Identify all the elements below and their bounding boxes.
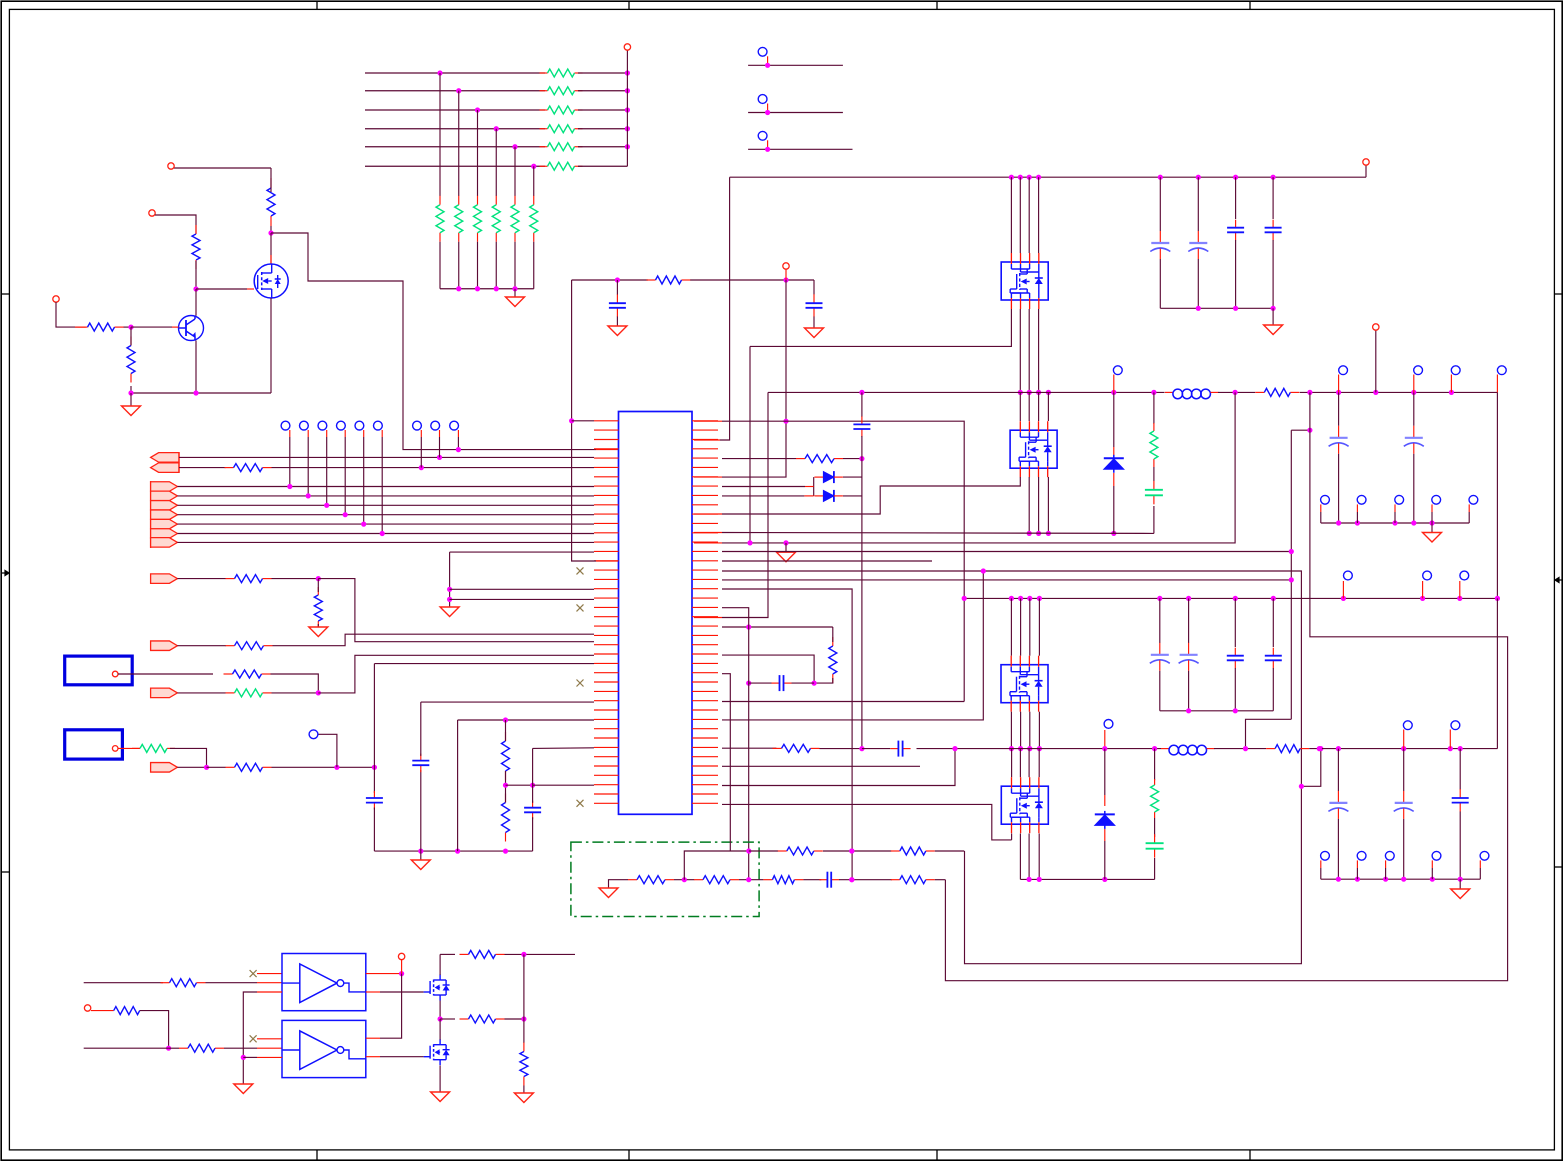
wire vertical pullup bus xyxy=(626,50,628,166)
resistor R17 xyxy=(647,279,656,281)
wire C6 col upper xyxy=(1338,392,1340,425)
junction bottom node xyxy=(128,390,133,395)
wire A4 tail xyxy=(273,634,595,646)
ic U1 controller xyxy=(619,412,693,815)
wire C11 bot xyxy=(616,317,618,327)
wire bottom bus of RG xyxy=(440,288,534,290)
junctions vout2 rail xyxy=(1317,746,1322,751)
transistor U5 MOSFET pair phase2 low xyxy=(1001,786,1048,824)
ic U1 left pin xyxy=(594,700,619,702)
wire RN4 to vertical bus xyxy=(578,128,627,130)
wire bus line 6 xyxy=(365,165,545,167)
wire VIN1 pin to drain resistor xyxy=(174,167,271,169)
test point stub xyxy=(1413,375,1415,393)
connector bracket B xyxy=(150,481,152,548)
ic U1 left pin xyxy=(594,560,619,562)
wire P8 stub xyxy=(91,1010,114,1012)
test point xyxy=(1321,495,1330,504)
wire tp stub xyxy=(1385,868,1387,879)
wire fb vertical xyxy=(1290,430,1292,719)
resistor RN4 xyxy=(540,128,548,130)
resistor R28 xyxy=(161,982,170,984)
transistor U2 MOSFET pair phase1 high xyxy=(1001,262,1048,300)
wire fb to vout2 xyxy=(1246,719,1292,748)
junctions VIN2 bus left xyxy=(1037,596,1042,601)
ic U1 right pin xyxy=(692,662,718,664)
junctions tp bus2 xyxy=(1383,877,1388,882)
test point TPC3 stub xyxy=(457,430,459,437)
test point TPC1 xyxy=(413,421,422,430)
wire A2 line tail xyxy=(272,467,595,469)
ic U1 right pin xyxy=(692,429,718,431)
wire B1 line xyxy=(177,486,594,488)
resistor RG5 xyxy=(514,196,516,205)
resistor RN6 xyxy=(540,165,548,167)
ground G-C11 xyxy=(608,326,627,336)
wire tap 1 down xyxy=(439,73,441,196)
wire inv cross link xyxy=(380,974,402,1039)
wire tp stub xyxy=(1431,868,1433,879)
wire gate node to Q3 gate xyxy=(196,288,247,290)
junction row579 fb xyxy=(1289,577,1294,582)
ic U1 left pin xyxy=(594,737,619,739)
ground G-R33 xyxy=(514,1093,533,1103)
junctions SW2 node xyxy=(1009,746,1014,751)
wire vref rail xyxy=(572,279,648,281)
resistor R24 xyxy=(763,879,772,881)
resistor R29 xyxy=(113,1010,115,1012)
test point stub xyxy=(1394,504,1396,512)
ground G-Q2 xyxy=(431,1092,450,1102)
junction SW2 col861 xyxy=(859,746,864,751)
wire comp upper mid xyxy=(749,850,778,852)
resistor R34 xyxy=(832,637,834,646)
ic U1 right pin xyxy=(692,578,718,580)
junctions bottom bus RG xyxy=(494,286,499,291)
ic U1 left pin xyxy=(594,420,619,422)
resistor RG1 xyxy=(439,196,441,205)
test point stub xyxy=(1496,375,1498,393)
test point TPC3 xyxy=(450,421,459,430)
resistor R27 xyxy=(891,850,900,852)
wire B4 line xyxy=(177,514,594,516)
junctions top pullup column xyxy=(625,88,630,93)
wire block1 lead 2 top xyxy=(1019,177,1021,253)
wire C22 col upper xyxy=(1459,749,1461,790)
wire col532 to IC row785 xyxy=(533,784,594,786)
connector arrow B2 xyxy=(151,491,178,501)
wire phase1 source bus xyxy=(722,532,1154,535)
junctions VIN2 bus caps xyxy=(1186,596,1191,601)
test point TPB2 xyxy=(300,421,309,430)
ic U1 right pin xyxy=(692,448,718,450)
ic U1 right pin xyxy=(692,802,718,804)
resistor R9 xyxy=(317,587,319,595)
connector arrow B5 xyxy=(151,519,178,529)
test point stub xyxy=(1338,375,1340,393)
diode D4 xyxy=(1095,813,1115,815)
capacitor C3 xyxy=(1235,220,1237,228)
ic U1 right pin xyxy=(692,625,718,627)
connector arrow A3 xyxy=(151,574,178,584)
wire block1 lead1 to gate net xyxy=(750,309,1011,346)
transistor U3 MOSFET pair phase1 low xyxy=(1010,430,1057,468)
wire tp stub xyxy=(1394,512,1396,523)
connector pin P8 xyxy=(84,1005,90,1011)
connector pin P7 xyxy=(783,263,789,269)
ic U1 right pin xyxy=(692,522,718,524)
test point TP5 xyxy=(1104,720,1113,729)
test point TPB3 stub xyxy=(326,430,328,437)
connector arrow B7 xyxy=(151,538,178,548)
ic U1 left pin xyxy=(594,588,619,590)
ic U1 right pin xyxy=(692,793,718,795)
wire cap col p2-1 upper xyxy=(1159,598,1161,643)
junctions vout2 rail xyxy=(1448,746,1453,751)
junction TPB5 xyxy=(361,522,366,527)
test point xyxy=(1321,851,1330,860)
test point TP4 stub xyxy=(1113,375,1115,393)
wire fb arm xyxy=(1291,429,1310,431)
ic U1 right pin xyxy=(692,681,718,683)
test point TPB4 xyxy=(337,421,346,430)
wire R1 top lead xyxy=(270,168,272,192)
wire cap col 3 upper xyxy=(1235,177,1237,219)
junction col851 xyxy=(849,877,854,882)
wire A4 head xyxy=(177,645,226,647)
junctions block2 source bus xyxy=(1027,531,1032,536)
wire tp stub xyxy=(1468,512,1470,523)
connector arrow B6 xyxy=(151,529,178,539)
ic U1 left pin xyxy=(594,429,619,431)
ic U1 left pin xyxy=(594,606,619,608)
wire C21 col lower xyxy=(1403,819,1405,879)
junctions 12V bus taps xyxy=(1018,175,1023,180)
wire 12V pin stub xyxy=(1365,165,1367,177)
wire block1 lead 1 top xyxy=(1010,177,1012,253)
wire A5 to jog xyxy=(318,655,594,693)
wire block1 lead 3 top xyxy=(1028,177,1030,253)
ic U1 left pin xyxy=(594,578,619,580)
wire row673 drop xyxy=(722,674,730,851)
wire cap col 4 lower xyxy=(1272,240,1274,308)
test point TPV0 xyxy=(1344,571,1353,580)
wire TPC1 down xyxy=(420,437,422,468)
test point TPB1 stub xyxy=(289,430,291,437)
junctions top pullup column xyxy=(625,126,630,131)
wire drain to right net xyxy=(271,233,596,450)
test point stub xyxy=(1431,860,1433,868)
junction vref caps xyxy=(615,277,620,282)
test point TPB3 xyxy=(318,421,327,430)
ground G-TR xyxy=(1264,325,1283,335)
test point xyxy=(1395,495,1404,504)
wire R33 to ground xyxy=(523,1086,525,1094)
wire block2 gate from IC xyxy=(722,486,920,514)
ic U1 left pin xyxy=(594,709,619,711)
ic U1 left pin xyxy=(594,728,619,730)
wire RN3 to vertical bus xyxy=(578,109,627,111)
junctions block2 source bus xyxy=(1036,531,1041,536)
wire block1 lead3 to SW1 xyxy=(1028,309,1030,392)
ic U1 left pin xyxy=(594,681,619,683)
test point TPV0 stub xyxy=(1342,581,1344,598)
ic U1 left pin xyxy=(594,569,619,571)
wire cap col p2-2 upper xyxy=(1188,598,1190,643)
junction A5 xyxy=(316,690,321,695)
wire tp bus1 xyxy=(1321,522,1469,524)
connector arrow B1 xyxy=(151,482,178,492)
junction tap line 6 xyxy=(531,164,536,169)
ic U1 left pin xyxy=(594,625,619,627)
junctions top pullup column xyxy=(625,107,630,112)
ground G-LL xyxy=(411,860,430,870)
resistor RG3 xyxy=(477,196,479,205)
ic U1 right pin xyxy=(692,560,718,562)
diode D1 xyxy=(1104,457,1124,459)
junction bottom node xyxy=(193,390,198,395)
wire right column xyxy=(523,954,525,1019)
wire top rail tail xyxy=(505,953,576,955)
resistor R20 xyxy=(1266,748,1275,750)
ic U1 right pin xyxy=(692,672,718,674)
wire mid rail head xyxy=(440,1018,455,1020)
wire col449 vertical xyxy=(449,552,451,607)
wire block2 lead1 top xyxy=(1019,392,1021,421)
wire col457 up xyxy=(457,720,459,851)
ic U1 left pin xyxy=(594,644,619,646)
ground G-inv xyxy=(234,1084,253,1094)
wire comp2 caprow right xyxy=(792,682,815,684)
wire comp ground stub xyxy=(609,880,629,888)
ic U1 left pin xyxy=(594,802,619,804)
connector arrow A6 xyxy=(151,763,178,773)
junction col532 mid xyxy=(530,783,535,788)
junction row719 up xyxy=(981,568,986,573)
wire ground stub LL xyxy=(420,851,422,860)
ic U1 right pin xyxy=(692,634,718,636)
wire RG5 to bottom bus xyxy=(514,242,516,289)
test point TP4 xyxy=(1113,366,1122,375)
resistor R10 xyxy=(226,645,235,647)
junctions 12V bus taps xyxy=(1009,175,1014,180)
wire vout1 sense loop xyxy=(945,392,1507,980)
junctions SW2 node xyxy=(1037,746,1042,751)
junction TPB4 xyxy=(343,512,348,517)
junctions vout2 rail xyxy=(1243,746,1248,751)
wire cap col 1 upper xyxy=(1159,177,1161,231)
wire comp col drop xyxy=(722,608,749,880)
capacitor C19 snubber xyxy=(1154,834,1156,843)
ic U1 right pin xyxy=(692,718,718,720)
junctions caps bottom bus TR xyxy=(1196,306,1201,311)
wire row785 drop xyxy=(722,749,955,786)
connector pin P5 xyxy=(1363,159,1369,165)
test point xyxy=(1339,366,1348,375)
wire RG3 to bottom bus xyxy=(477,242,479,289)
wire bus line 1 xyxy=(365,72,545,74)
junction inv row3 xyxy=(241,1055,246,1060)
wire R2 to gate node xyxy=(195,261,197,289)
junction mid rail xyxy=(438,1016,443,1021)
resistor RN1 xyxy=(540,72,548,74)
wire C12 col xyxy=(813,280,815,295)
wire tap 4 down xyxy=(495,129,497,196)
test point TP2 xyxy=(758,95,767,104)
resistor RG6 xyxy=(533,196,535,205)
junction col505 mid xyxy=(503,783,508,788)
ic U1 left pin xyxy=(594,616,619,618)
test point stub xyxy=(1320,860,1322,868)
junctions vout1 rail xyxy=(1373,390,1378,395)
connector pin J2-1 xyxy=(112,746,118,752)
wire block2 lead2 to PGND bus xyxy=(1028,477,1030,533)
wire comp mid3 xyxy=(803,879,821,881)
wire comp mid2 xyxy=(739,879,763,881)
junction tap line 4 xyxy=(494,126,499,131)
test point stub xyxy=(1450,375,1452,393)
wire cap col 2 lower xyxy=(1197,259,1199,308)
wire inv row3 lead xyxy=(257,991,282,993)
connector pin P3 xyxy=(53,296,59,302)
wire cap col 2 upper xyxy=(1197,177,1199,231)
junction vout2 jog xyxy=(1299,784,1304,789)
ground G-RG xyxy=(506,297,525,307)
junctions SW1 node xyxy=(1018,390,1023,395)
ic U1 left pin xyxy=(594,634,619,636)
resistor R18 xyxy=(796,458,805,460)
diode D2 xyxy=(814,476,823,478)
junction lineA xyxy=(783,540,788,545)
resistor RN3 xyxy=(540,109,548,111)
ic U1 left pin xyxy=(594,756,619,758)
wire TP segment 3 xyxy=(748,148,852,150)
wire A6 mid xyxy=(207,766,226,768)
wire TPB6 down xyxy=(381,437,383,534)
wire cap col p2-2 lower xyxy=(1188,671,1190,711)
ic U1 right pin xyxy=(692,616,718,618)
wire SW1 rail xyxy=(768,391,1165,393)
test point stub xyxy=(1356,860,1358,868)
ic U1 left pin xyxy=(594,457,619,459)
wire block4 lead1 top xyxy=(1011,749,1013,778)
diode D3 xyxy=(814,495,823,497)
wire TP segment 1 xyxy=(748,64,843,66)
wire P9 stub xyxy=(401,960,403,974)
wire block3 lead3 bot xyxy=(1029,712,1031,749)
capacitor C21 polarized xyxy=(1403,791,1405,803)
wire col861 long xyxy=(861,459,863,749)
junctions 12V bus caps xyxy=(1233,175,1238,180)
wire col851 drop xyxy=(722,589,852,880)
wire cap col 4 upper xyxy=(1272,177,1274,219)
ic U1 left pin xyxy=(594,653,619,655)
wire SW1 to lineA xyxy=(722,392,1235,543)
ic U1 left pin xyxy=(594,448,619,450)
junctions tp bus2 xyxy=(1430,877,1435,882)
inductor L1 xyxy=(1165,391,1173,393)
junctions caps bottom bus TR xyxy=(1233,306,1238,311)
wire row561 xyxy=(722,560,932,562)
junctions tp bus1 xyxy=(1392,520,1397,525)
connector arrow A5 xyxy=(151,688,178,698)
wire ground stub TR xyxy=(1272,308,1274,325)
wire RN6 to vertical bus xyxy=(578,165,627,167)
junctions top pullup column xyxy=(625,70,630,75)
junctions 12V bus caps xyxy=(1158,175,1163,180)
ic U1 right pin xyxy=(692,774,718,776)
wire Q2 drain up xyxy=(439,1019,441,1040)
transistor Q4 NPN xyxy=(179,316,204,341)
wire J2 tail xyxy=(170,748,207,767)
wire vout1 right vertical xyxy=(1496,392,1498,598)
junction tap line 3 xyxy=(475,107,480,112)
junctions vout2 rail xyxy=(1152,746,1157,751)
ic U1 right pin xyxy=(692,709,718,711)
wire diode pair stub xyxy=(722,486,805,488)
ic U1 right pin xyxy=(692,476,718,478)
ic U1 left pin xyxy=(594,597,619,599)
ground GTL xyxy=(122,406,141,416)
wire inv2 input line xyxy=(84,1047,169,1049)
junction comp2 node xyxy=(746,681,751,686)
wire ground stub tpbus2 xyxy=(1459,879,1461,889)
wire L1 to R xyxy=(1218,391,1255,393)
wire C19 to bus xyxy=(1154,858,1156,879)
wire C20 col lower xyxy=(1337,819,1339,879)
junction col449 xyxy=(447,587,452,592)
wire comp upper tail xyxy=(935,850,964,852)
wire diode pair vertical xyxy=(813,477,815,496)
junctions top pullup column xyxy=(625,144,630,149)
junctions bottom bus RG xyxy=(475,286,480,291)
wire TPB5 down xyxy=(363,437,365,524)
junction top rail xyxy=(521,952,526,957)
resistor R8 xyxy=(226,578,235,580)
test point TPD xyxy=(309,730,318,739)
resistor R23 xyxy=(694,879,703,881)
wire row579 xyxy=(722,579,1291,581)
wire block3 lead1 bot xyxy=(1010,712,1012,749)
ic U1 right pin xyxy=(692,541,718,543)
wire col449 row589 xyxy=(450,588,594,590)
wire C12 bot xyxy=(813,317,815,329)
wire row571 inner loop xyxy=(722,571,1301,964)
ic U1 right pin xyxy=(692,504,718,506)
wire block1 lead 4 top xyxy=(1038,177,1040,253)
junction A6 xyxy=(204,765,209,770)
junctions block2 source bus xyxy=(1046,531,1051,536)
junction TPB3 xyxy=(324,503,329,508)
wire A6 tail xyxy=(272,766,375,768)
wire vout2 right vertical xyxy=(1496,598,1498,748)
no-connect mark xyxy=(577,680,584,687)
connector arrow B4 xyxy=(151,510,178,520)
resistor R14 xyxy=(226,766,235,768)
wire comp2 caprow left xyxy=(749,682,772,684)
wire phase2 source bus xyxy=(1020,878,1154,880)
wire lineA ground stub xyxy=(785,543,787,552)
wire B2 line xyxy=(177,495,594,497)
wire R4 top lead xyxy=(130,327,132,345)
wire bus line 3 xyxy=(365,109,545,111)
wire col449 head xyxy=(450,551,594,553)
wire inv2 out1 lead xyxy=(366,1037,380,1039)
junction row458 xyxy=(859,456,864,461)
ic U1 right pin xyxy=(692,746,718,748)
test point TPB5 xyxy=(355,421,364,430)
wire block4 lead2 to bus xyxy=(1019,834,1021,880)
